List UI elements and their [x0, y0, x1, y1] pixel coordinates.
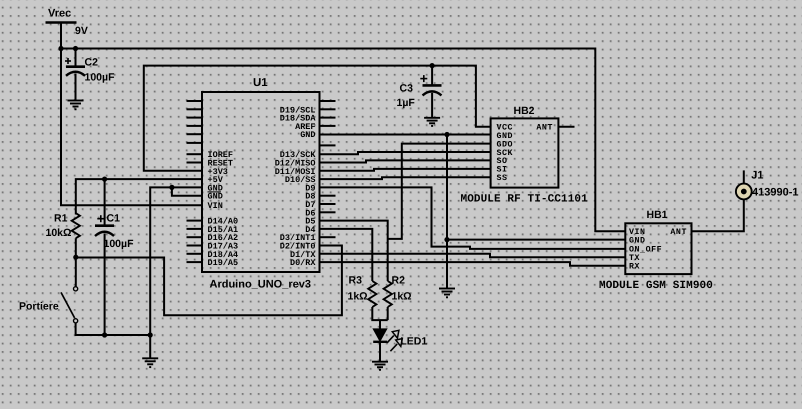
- wire J1 top tick: [743, 170, 745, 183]
- resistor R1: [72, 213, 80, 238]
- svg-text:C3: C3: [400, 83, 414, 95]
- wire D0/RX to HB1 RX: [320, 262, 626, 266]
- wire D4 to R3: [320, 229, 373, 281]
- wire HB2 ANT stub: [558, 126, 574, 128]
- svg-text:R2: R2: [392, 275, 406, 287]
- svg-text:D0/RX: D0/RX: [290, 258, 316, 268]
- svg-text:SS: SS: [497, 174, 508, 183]
- svg-text:413990-1: 413990-1: [752, 186, 799, 198]
- wire R3 bottom: [372, 307, 387, 320]
- pin stub U1 right D8: [320, 195, 336, 197]
- capacitor C3: [420, 75, 441, 95]
- pin stub U1 left top row 2: [187, 108, 203, 110]
- svg-text:HB2: HB2: [514, 105, 535, 117]
- svg-text:1kΩ: 1kΩ: [348, 291, 368, 303]
- wire D1/TX to HB1 TX: [320, 254, 626, 257]
- pin stub U1 left D14/A0: [187, 220, 203, 222]
- wire U1 GND to HB2 GND: [320, 134, 491, 136]
- pin stub U1 left top row 6: [187, 142, 203, 144]
- wire D5 to R2: [320, 221, 388, 281]
- svg-text:1µF: 1µF: [397, 97, 416, 109]
- pin stub U1 right D3/INT1: [320, 236, 336, 238]
- junction node C1 tap on +5V rail: [102, 177, 107, 182]
- junction node GND net at HB1 row: [444, 237, 449, 242]
- svg-text:Portiere: Portiere: [19, 301, 59, 313]
- HB1 pin labels: [629, 228, 687, 271]
- HB2 pin labels: [497, 124, 554, 184]
- wire HB2 GDO jog to LED net: [388, 144, 491, 239]
- pin stub U1 right D6: [320, 211, 336, 213]
- svg-text:100µF: 100µF: [104, 238, 135, 250]
- svg-text:ANT: ANT: [670, 228, 687, 237]
- pin stub U1 left top row 4: [187, 125, 203, 127]
- op-amp U1 body (Arduino box): [202, 92, 320, 272]
- capacitor C1: [95, 215, 114, 236]
- pin stub U1 right spare above D13: [320, 144, 336, 146]
- wire C2 to ground: [75, 74, 77, 101]
- module HB2 body: [491, 118, 559, 187]
- switch Portiere: [61, 287, 78, 323]
- svg-text:C1: C1: [107, 213, 121, 225]
- junction node C1 bottom: [102, 332, 107, 337]
- wire D12/MISO to HB2 SO: [320, 160, 491, 162]
- junction node C3 tap: [430, 63, 435, 68]
- wire +3V3 loop to HB2 VCC: [144, 66, 491, 171]
- svg-text:9V: 9V: [75, 25, 88, 37]
- pin stub U1 left top row 3: [187, 117, 203, 119]
- pin stub U1 left IOREF: [187, 153, 203, 155]
- junction node GND2 tie: [169, 185, 174, 190]
- wire C1 bottom: [104, 234, 106, 336]
- wire GND net vertical to ground and HB1 GND: [446, 135, 448, 289]
- pin stub U1 right top unlabeled: [320, 100, 336, 102]
- capacitor C2: [65, 58, 85, 76]
- pin stub U1 left RESET: [187, 162, 203, 164]
- connector J1 pad: [736, 184, 752, 200]
- svg-text:R3: R3: [349, 275, 363, 287]
- ground (C3): [424, 118, 440, 126]
- wire C2 branch: [75, 49, 77, 67]
- svg-text:Arduino_UNO_rev3: Arduino_UNO_rev3: [210, 279, 311, 291]
- svg-text:10kΩ: 10kΩ: [46, 227, 72, 239]
- svg-text:RX: RX: [629, 263, 640, 272]
- svg-text:ANT: ANT: [536, 124, 553, 133]
- wire D11/MOSI to HB2 SI: [320, 169, 491, 171]
- svg-text:J1: J1: [751, 170, 763, 182]
- module HB1 body: [625, 223, 691, 274]
- svg-text:1kΩ: 1kΩ: [392, 291, 412, 303]
- svg-text:MODULE RF TI-CC1101: MODULE RF TI-CC1101: [461, 194, 589, 206]
- pin stub U1 left D16/A2: [187, 236, 203, 238]
- junction node Vrec rail: [58, 46, 63, 51]
- wire switch bottom to ground rail: [76, 323, 151, 335]
- pin stub U1 left D19/A5: [187, 261, 203, 263]
- pin stub U1 right D19/SCL: [320, 108, 336, 110]
- pin stub U1 left D15/A1: [187, 228, 203, 230]
- U1 pin labels right column: [275, 105, 317, 268]
- wire +5V rail to R1 top: [76, 179, 202, 214]
- ground (LED1): [372, 362, 388, 370]
- wire D10/SS to HB2 SS: [320, 177, 491, 179]
- ground (GSM/RF GND net): [439, 289, 455, 298]
- svg-text:MODULE GSM SIM900: MODULE GSM SIM900: [599, 280, 713, 292]
- wire R1 bottom to switch: [75, 238, 77, 286]
- wire C1 top branch: [104, 179, 106, 225]
- LED LED1: [373, 329, 402, 351]
- wire LED anode: [379, 320, 381, 329]
- wire HB1 ANT to J1: [692, 200, 744, 232]
- svg-text:GND: GND: [629, 236, 646, 245]
- ground (C1 / switch / U1 GND net): [142, 358, 158, 367]
- pin stub U1 right D7: [320, 203, 336, 205]
- svg-text:VIN: VIN: [208, 201, 223, 211]
- wire U1 GND pin down to ground: [150, 187, 202, 357]
- wire D9 to HB1 ON-OFF: [320, 187, 626, 249]
- wire C3 to ground: [431, 93, 433, 118]
- resistor R2: [384, 281, 392, 307]
- svg-text:Vrec: Vrec: [48, 8, 71, 20]
- pin stub U1 right D18/SDA: [320, 117, 336, 119]
- pin stub U1 left D17/A3: [187, 245, 203, 247]
- svg-text:C2: C2: [85, 57, 99, 69]
- wire D13/SCK to HB2 SCK: [320, 152, 491, 154]
- junction node ground rail corner: [148, 332, 153, 337]
- wire R2 bottom: [387, 307, 389, 320]
- svg-text:R1: R1: [54, 213, 68, 225]
- svg-text:D19/A5: D19/A5: [208, 258, 239, 268]
- junction node GND net at HB2 row: [444, 132, 449, 137]
- svg-text:HB1: HB1: [647, 209, 668, 221]
- junction node R1 bottom: [73, 255, 78, 260]
- wire LED cathode to ground: [379, 343, 381, 362]
- svg-text:100µF: 100µF: [85, 72, 116, 84]
- svg-text:GND: GND: [300, 130, 315, 140]
- junction node C2 tap: [73, 46, 78, 51]
- power terminal Vrec bar: [46, 21, 77, 24]
- wire U1 GND2 tie: [172, 187, 202, 195]
- pin stub U1 left D18/A4: [187, 253, 203, 255]
- resistor R3: [368, 281, 376, 307]
- wire D2/INT0 to door switch net: [76, 246, 342, 316]
- wire Vrec vertical to VIN corner: [61, 23, 202, 206]
- wire Vrec top rail to HB1 VIN: [61, 49, 625, 232]
- wire C3 branch: [431, 66, 433, 86]
- ground (C2): [68, 101, 84, 110]
- pin stub U1 right AREF: [320, 125, 336, 127]
- svg-text:LED1: LED1: [400, 335, 427, 347]
- wire HB1 GND row: [447, 239, 625, 241]
- svg-text:U1: U1: [253, 77, 268, 89]
- pin stub U1 left top row 5: [187, 133, 203, 135]
- pin stub U1 left top row 1: [187, 100, 203, 102]
